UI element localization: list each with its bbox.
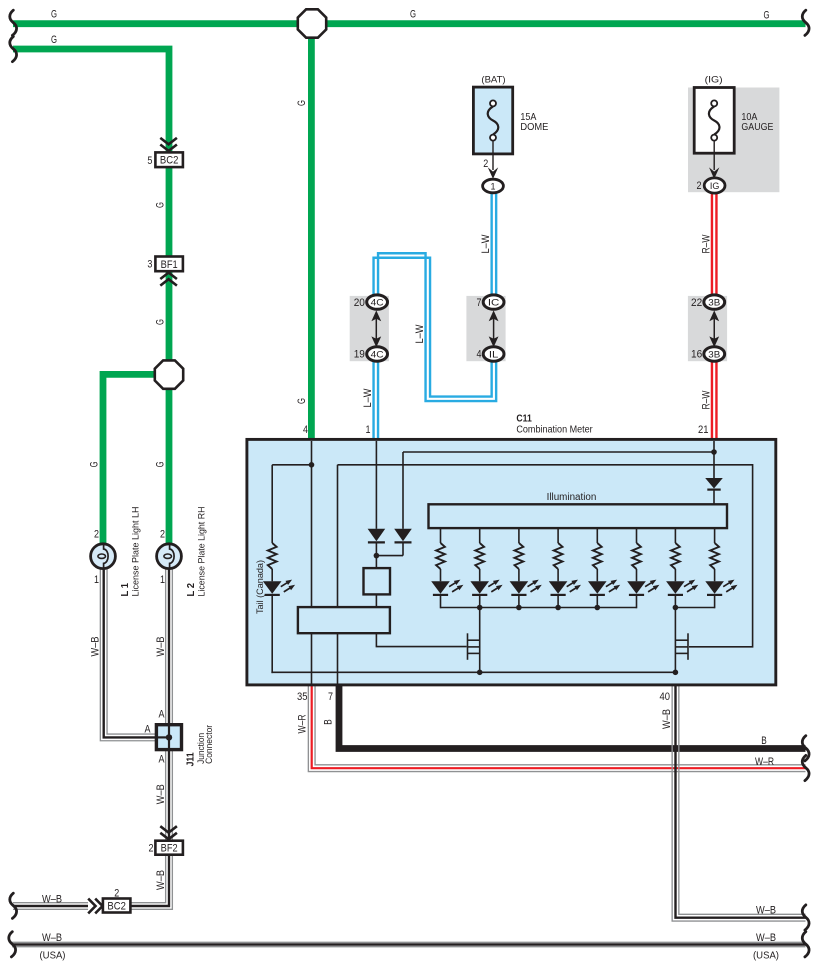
wire: R-W fuse GAUGE to connector 3B pin 22 bbox=[711, 193, 713, 302]
lamp L2 License Plate Light RH bbox=[157, 544, 182, 569]
wire: G segment BC2 to BF1 bbox=[166, 165, 173, 258]
wire: internal pin7 vertical bbox=[337, 465, 339, 685]
wire: G octagon down to L2 bbox=[166, 386, 173, 545]
transistor Q2 (right) channel bbox=[674, 608, 676, 673]
svg-text:L–W: L–W bbox=[362, 388, 374, 408]
diode D2 bbox=[394, 529, 412, 542]
driver IC rectangle bbox=[298, 607, 390, 633]
wire: L-W from fuse DOME down to connector IC bbox=[490, 192, 492, 302]
svg-text:4: 4 bbox=[477, 349, 482, 361]
wire: W-B lamp L1 to J11 bbox=[100, 569, 155, 741]
connector 3B mating arrows bbox=[713, 317, 715, 340]
svg-text:3B: 3B bbox=[708, 349, 720, 360]
svg-text:40: 40 bbox=[660, 691, 671, 703]
svg-text:2: 2 bbox=[160, 529, 165, 541]
in-line connector BC2 (bottom) bbox=[103, 899, 130, 913]
node: bus / pin 40 bbox=[673, 670, 679, 676]
illumination channel 2 LED bbox=[470, 581, 489, 594]
svg-text:1: 1 bbox=[94, 574, 99, 586]
junction connector J11 bbox=[156, 725, 181, 750]
wire: W-B J11 to BF2 bbox=[165, 751, 167, 841]
wire: internal horizontal pin7 to right gate bbox=[338, 465, 753, 647]
wire: tail branch vertical with resistor bbox=[271, 465, 273, 543]
svg-text:W–B: W–B bbox=[155, 637, 167, 657]
diode D3 on illumination feed bbox=[705, 478, 723, 489]
svg-text:W–B: W–B bbox=[42, 894, 62, 906]
svg-text:20: 20 bbox=[354, 297, 365, 309]
wire: W-B USA bus full width bbox=[12, 941, 806, 943]
illumination channel 7 resistor bbox=[674, 529, 676, 543]
svg-text:16: 16 bbox=[691, 349, 702, 361]
illumination channel 2 resistor bbox=[479, 529, 481, 543]
illumination channel 6 resistor bbox=[636, 529, 638, 543]
node: LED bus junction x=518.9 bbox=[516, 605, 522, 611]
svg-text:BC2: BC2 bbox=[107, 900, 126, 912]
connector IL pin 4 oval bbox=[483, 347, 504, 361]
connector 3B gray block bbox=[688, 296, 727, 361]
node: junction pin4/tail bbox=[309, 462, 315, 468]
connector 3B pin 22 oval bbox=[704, 295, 725, 309]
node: LED bus junction x=479.7 bbox=[477, 605, 483, 611]
wire: horizontal D2 to pin21 line bbox=[403, 451, 714, 453]
wire: G vertical from splice J4 down to meter pin 4 bbox=[308, 24, 315, 440]
break symbol USA bus right bbox=[802, 932, 809, 957]
wire: W-B from meter pin 40 to right edge bbox=[672, 685, 805, 921]
wire: square driver to rect bbox=[375, 594, 377, 607]
wire: Q1 gate lead from driver bbox=[376, 633, 466, 646]
svg-text:3: 3 bbox=[147, 259, 152, 271]
node: D1/D2 junction bbox=[374, 553, 380, 559]
svg-text:A: A bbox=[159, 754, 166, 766]
svg-text:19: 19 bbox=[354, 349, 365, 361]
svg-text:4: 4 bbox=[303, 424, 308, 436]
svg-text:G: G bbox=[764, 9, 770, 21]
wire: LED bus segment B bbox=[675, 607, 714, 609]
svg-text:5: 5 bbox=[147, 155, 152, 167]
svg-text:R–W: R–W bbox=[701, 234, 713, 253]
wire: internal horizontal tail branch bbox=[272, 464, 311, 466]
fuse 10A GAUGE box bbox=[694, 88, 734, 154]
wire: L-W from 4C pin 19 to meter pin 1 bbox=[372, 354, 374, 441]
svg-text:L–W: L–W bbox=[414, 324, 426, 344]
wire: B thick from meter pin 7 to right edge bbox=[339, 685, 806, 749]
svg-text:W–B: W–B bbox=[90, 637, 102, 657]
svg-text:BF2: BF2 bbox=[161, 842, 178, 854]
in-line connector BC2 (top) bbox=[155, 152, 183, 167]
connector 4C pin 20 oval bbox=[367, 295, 388, 309]
resistor tail (Canada) bbox=[268, 543, 277, 569]
wire: second G feed horizontal/vertical to BC2 bbox=[13, 49, 169, 152]
lamp L1 License Plate Light LH bbox=[91, 544, 116, 569]
LED tail (Canada) bbox=[263, 581, 282, 594]
wire: G branch octagon to L1 bbox=[103, 374, 158, 544]
svg-text:A: A bbox=[159, 709, 166, 721]
fuse GAUGE lead and arrow bbox=[713, 141, 715, 170]
illumination dimmer bar bbox=[429, 504, 728, 528]
connector 4C gray block bbox=[350, 296, 389, 361]
svg-text:W–B: W–B bbox=[756, 932, 776, 944]
connector IC/IL gray block bbox=[466, 296, 505, 361]
splice octagon on main G bus bbox=[298, 9, 326, 37]
illumination channel 3 LED bbox=[510, 581, 529, 594]
svg-text:G: G bbox=[154, 461, 166, 467]
svg-text:IG: IG bbox=[710, 181, 720, 192]
svg-text:W–R: W–R bbox=[297, 714, 309, 733]
svg-text:G: G bbox=[51, 34, 57, 46]
svg-text:W–B: W–B bbox=[155, 870, 167, 890]
break symbol USA bus left bbox=[9, 932, 16, 957]
svg-text:G: G bbox=[51, 9, 57, 21]
connector IC/IL mating arrows bbox=[493, 317, 495, 340]
break symbol B wire right bbox=[802, 736, 809, 761]
illumination channel 5 resistor bbox=[596, 529, 598, 543]
svg-text:C11: C11 bbox=[516, 414, 532, 425]
svg-text:G: G bbox=[154, 319, 166, 325]
illumination channel 1 resistor bbox=[440, 529, 442, 543]
break symbol top-right bbox=[802, 10, 809, 35]
svg-text:2: 2 bbox=[483, 158, 488, 170]
svg-text:1: 1 bbox=[491, 182, 496, 193]
fuse 15A DOME box bbox=[473, 87, 512, 154]
wire: common bottom bus bbox=[271, 671, 675, 673]
svg-text:Connector: Connector bbox=[203, 725, 214, 764]
svg-text:7: 7 bbox=[328, 691, 333, 703]
svg-text:4C: 4C bbox=[371, 349, 384, 360]
chevron arrows out of BF1 bbox=[160, 273, 177, 279]
wire: W-B BF2 down to BC2 corner bbox=[131, 855, 166, 903]
wire: R-W connector 3B pin 16 to meter pin 21 bbox=[711, 353, 713, 440]
svg-text:(USA): (USA) bbox=[40, 951, 66, 962]
svg-text:35: 35 bbox=[297, 691, 308, 703]
svg-text:Illumination: Illumination bbox=[547, 492, 597, 503]
wire: LED bus segment A bbox=[441, 607, 637, 609]
illumination channel 8 LED bbox=[705, 581, 724, 594]
in-line connector BF2 bbox=[155, 841, 183, 855]
wire: main G bus horizontal bbox=[13, 20, 806, 27]
wire: D2 branch bbox=[402, 452, 404, 529]
node: LED bus junction x=597.3 bbox=[595, 605, 601, 611]
break symbol top-left wire2 bbox=[10, 37, 17, 62]
terminal oval IG bbox=[704, 178, 725, 193]
svg-text:R–W: R–W bbox=[701, 390, 713, 409]
illumination channel 4 LED bbox=[549, 581, 568, 594]
svg-text:(USA): (USA) bbox=[753, 951, 779, 962]
svg-text:4C: 4C bbox=[371, 298, 384, 309]
svg-text:BC2: BC2 bbox=[160, 155, 179, 167]
wire: W-R from meter pin 35 to right edge bbox=[308, 685, 805, 772]
wire: D1 cathode to junction bbox=[375, 543, 377, 568]
connector IC pin 7 oval bbox=[483, 295, 504, 309]
svg-text:License Plate Light LH: License Plate Light LH bbox=[130, 507, 141, 597]
svg-text:G: G bbox=[296, 100, 308, 106]
break symbol BC2 wire left bbox=[10, 893, 17, 918]
svg-text:1: 1 bbox=[366, 424, 371, 436]
svg-text:W–B: W–B bbox=[155, 784, 167, 804]
svg-text:GAUGE: GAUGE bbox=[741, 121, 773, 133]
wire: W-B lamp L2 to J11 bbox=[165, 569, 167, 724]
in-line connector BF1 bbox=[155, 257, 183, 272]
break symbol W-R wire right bbox=[802, 755, 809, 780]
combination meter C11 box bbox=[247, 439, 776, 685]
wire: pin1 vertical to diode bbox=[375, 441, 377, 529]
svg-text:W–B: W–B bbox=[756, 905, 776, 917]
svg-text:2: 2 bbox=[94, 529, 99, 541]
node: LED bus junction x=558.1 bbox=[555, 605, 561, 611]
chevron arrows into bottom BC2 bbox=[88, 899, 95, 914]
chevron arrows into BC2 bbox=[160, 138, 177, 144]
wire: L-W loop IL to 4C connector bbox=[374, 258, 492, 397]
svg-text:2: 2 bbox=[697, 180, 702, 192]
svg-text:W–B: W–B bbox=[661, 709, 673, 729]
illumination channel 7 LED bbox=[666, 581, 685, 594]
svg-text:(IG): (IG) bbox=[705, 75, 723, 85]
svg-text:2: 2 bbox=[114, 887, 119, 899]
svg-text:IL: IL bbox=[489, 349, 499, 360]
illumination channel 8 resistor bbox=[714, 529, 716, 543]
svg-text:License Plate Light RH: License Plate Light RH bbox=[196, 507, 207, 597]
svg-text:L–W: L–W bbox=[480, 234, 492, 254]
svg-text:22: 22 bbox=[691, 297, 702, 309]
svg-text:G: G bbox=[154, 202, 166, 208]
illumination channel 6 LED bbox=[627, 581, 646, 594]
wire: G segment BF1 to splice octagon bbox=[166, 270, 173, 363]
illumination channel 1 LED bbox=[431, 581, 450, 594]
wire: pin21 vertical bbox=[713, 441, 715, 478]
svg-text:IC: IC bbox=[488, 298, 500, 309]
transistor Q1 (left) channel bbox=[479, 608, 481, 673]
fuse 10A GAUGE gray block bbox=[688, 88, 779, 193]
illumination channel 4 resistor bbox=[557, 529, 559, 543]
connector 3B pin 16 oval bbox=[704, 347, 725, 361]
diode D1 from pin 1 bbox=[368, 529, 386, 542]
terminal oval 1 below fuse DOME bbox=[483, 179, 504, 193]
wire: tail LED down to common bus bbox=[271, 595, 273, 673]
break symbol W-B pin40 right bbox=[802, 905, 809, 930]
svg-text:Combination Meter: Combination Meter bbox=[516, 424, 593, 435]
svg-text:1: 1 bbox=[160, 574, 165, 586]
svg-text:A: A bbox=[145, 724, 152, 736]
svg-text:W–B: W–B bbox=[42, 932, 62, 944]
transistor Q1 gate bbox=[467, 633, 469, 660]
svg-text:21: 21 bbox=[698, 424, 709, 436]
connector 4C mating arrows bbox=[375, 317, 377, 340]
svg-text:(BAT): (BAT) bbox=[481, 75, 505, 85]
svg-text:Tail (Canada): Tail (Canada) bbox=[254, 560, 265, 614]
connector 4C pin 19 oval bbox=[367, 347, 388, 361]
svg-text:DOME: DOME bbox=[520, 121, 548, 133]
wire: internal pin4 vertical to pin 35 bbox=[311, 441, 313, 685]
svg-text:G: G bbox=[410, 9, 416, 21]
break symbol top-left wire1 bbox=[10, 10, 17, 35]
svg-text:W–R: W–R bbox=[755, 756, 774, 768]
splice octagon above license lamps bbox=[155, 360, 183, 388]
node: bus / left transistor source bbox=[477, 670, 483, 676]
chevron arrows into BF2 bbox=[160, 826, 177, 832]
svg-text:B: B bbox=[323, 719, 335, 725]
svg-text:BF1: BF1 bbox=[161, 259, 178, 271]
node: LED bus / right transistor bbox=[673, 605, 679, 611]
illumination channel 3 resistor bbox=[518, 529, 520, 543]
fuse DOME lead and arrow bbox=[492, 141, 494, 170]
wire: W-B from left edge into BC2 bbox=[13, 902, 88, 904]
svg-text:7: 7 bbox=[477, 297, 482, 309]
svg-text:3B: 3B bbox=[708, 298, 720, 309]
driver square box bbox=[364, 568, 391, 594]
svg-text:G: G bbox=[89, 461, 101, 467]
illumination channel 5 LED bbox=[588, 581, 607, 594]
svg-text:G: G bbox=[296, 398, 308, 404]
svg-text:2: 2 bbox=[149, 842, 154, 854]
svg-text:B: B bbox=[761, 735, 767, 747]
node: pin21 junction bbox=[711, 449, 717, 455]
transistor Q2 gate bbox=[687, 633, 689, 660]
